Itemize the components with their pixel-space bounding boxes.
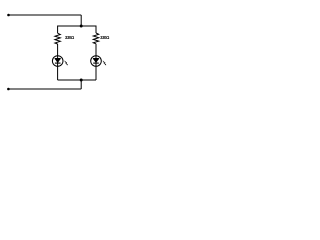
wire top rail (58, 25, 96, 27)
wire left branch middle (57, 44, 59, 80)
wire bottom rail (58, 79, 96, 81)
wire bottom horizontal (8, 88, 81, 90)
svg-text:330Ω: 330Ω (100, 35, 110, 40)
wire top horizontal (9, 14, 82, 16)
wire left branch upper (57, 26, 59, 34)
resistor R1 (55, 33, 60, 44)
LED D2 emission arrows (103, 61, 106, 66)
junction dot top rail (80, 25, 83, 28)
node terminal dot top-left (7, 14, 10, 17)
wire bottom vertical drop (80, 80, 82, 89)
wire right branch middle (95, 44, 97, 80)
node terminal dot bottom-left (7, 88, 10, 91)
LED D1 emission arrows (65, 61, 68, 66)
wire right branch upper (95, 26, 97, 34)
wire top vertical drop (80, 15, 82, 26)
junction dot bottom rail (80, 79, 83, 82)
LED D1 (52, 56, 63, 67)
resistor R2 (93, 33, 98, 44)
svg-text:330Ω: 330Ω (65, 35, 75, 40)
LED D2 (91, 56, 102, 67)
